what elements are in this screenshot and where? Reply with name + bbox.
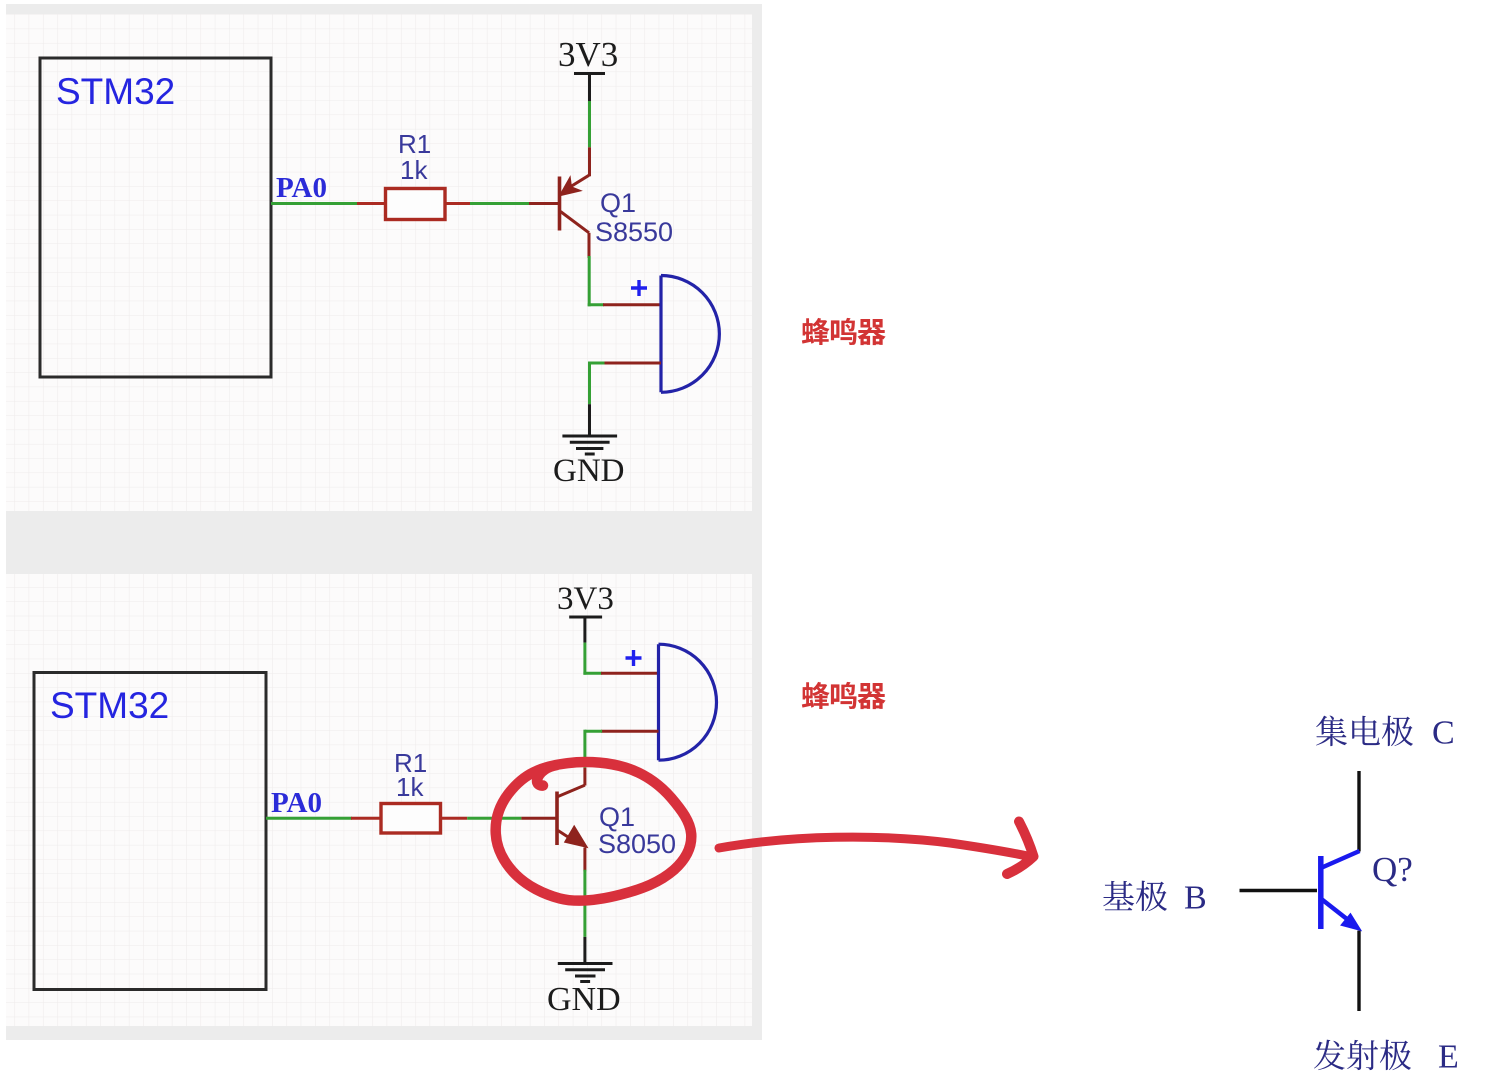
svg-text:E: E xyxy=(1438,1039,1459,1076)
wire green (2) xyxy=(467,817,521,820)
wire buzzer bottom pin red (2) xyxy=(601,730,659,733)
IC U? STM32 box xyxy=(40,58,271,377)
svg-text:STM32: STM32 xyxy=(50,685,169,726)
wire resistor right pin (2) xyxy=(441,817,468,820)
wire resistor left pin (2) xyxy=(351,817,381,820)
wire green from 3V3 xyxy=(588,101,591,147)
wire green to transistor xyxy=(470,202,529,205)
base bar xyxy=(555,792,559,846)
svg-text:3V3: 3V3 xyxy=(558,35,618,74)
transistor demo (blue) xyxy=(1321,851,1360,930)
wire green down to buzzer level xyxy=(588,256,591,306)
wire resistor left pin xyxy=(357,202,385,205)
collector diagonal xyxy=(561,212,590,233)
wire base pin (2) xyxy=(521,817,556,820)
svg-text:1k: 1k xyxy=(400,155,428,185)
ground symbol (2) xyxy=(558,964,613,982)
power 3V3 bar symbol xyxy=(574,72,605,75)
buzzer LS1 bottom xyxy=(659,644,717,760)
transistor Q1 S8050 (NPN) xyxy=(557,785,586,847)
wire buzzer + pin red xyxy=(603,303,661,306)
wire collector down red xyxy=(588,233,591,258)
wire black to gnd (2) xyxy=(583,937,586,964)
svg-text:GND: GND xyxy=(553,453,625,489)
ground symbol xyxy=(562,436,617,454)
base bar blue xyxy=(1318,856,1324,929)
wire resistor right pin xyxy=(445,202,470,205)
label + plus (2) xyxy=(626,650,642,666)
panel gray frame xyxy=(6,4,762,1040)
transistor Q1 S8550 (PNP) xyxy=(560,175,590,233)
svg-text:1k: 1k xyxy=(396,772,424,802)
annotation hand-drawn circle xyxy=(496,762,692,901)
wire green down xyxy=(588,362,591,405)
wire green from 3V3 (2) xyxy=(583,643,586,675)
wire PA0 green segment xyxy=(271,202,359,205)
wire green down to gnd (2) xyxy=(583,870,586,937)
svg-text:S8050: S8050 xyxy=(598,829,676,859)
emitter arrow blue xyxy=(1342,914,1360,930)
resistor R1 body xyxy=(386,189,446,220)
collector lead xyxy=(1357,771,1360,852)
IC U? STM32 box (2) xyxy=(34,673,266,990)
wire black to gnd xyxy=(588,404,591,436)
annotation arrow head xyxy=(1007,822,1034,875)
label 基极 B xyxy=(1103,881,1134,910)
svg-text:GND: GND xyxy=(547,981,621,1018)
collector diagonal blue xyxy=(1322,851,1360,868)
label 发射极 E xyxy=(1314,1040,1345,1071)
wire green corner to buzzer xyxy=(588,303,604,306)
label + plus xyxy=(631,280,647,296)
svg-text:Q?: Q? xyxy=(1372,850,1413,889)
emitter diagonal xyxy=(566,175,589,189)
wire emitter red down (2) xyxy=(583,848,586,872)
svg-text:PA0: PA0 xyxy=(271,787,322,819)
panel 1 grid background xyxy=(6,14,752,511)
emitter arrow (points outward) xyxy=(566,827,587,847)
wire collector red vertical (2) xyxy=(583,768,586,786)
svg-text:B: B xyxy=(1184,880,1207,917)
wire buzzer + pin red (2) xyxy=(601,672,659,675)
wire green corner from buzzer (2) xyxy=(585,730,602,733)
annotation 蜂鸣器 (bottom) xyxy=(802,682,830,709)
resistor R1 body (2) xyxy=(381,804,441,834)
wire PA0 green (2) xyxy=(266,817,352,820)
emitter arrow (points into base bar) xyxy=(561,179,580,195)
label 集电极 C xyxy=(1316,716,1347,747)
svg-text:C: C xyxy=(1432,715,1455,752)
svg-text:Q1: Q1 xyxy=(600,188,636,218)
buzzer LS1 top xyxy=(661,276,719,393)
emitter diagonal blue xyxy=(1322,900,1352,924)
svg-text:PA0: PA0 xyxy=(276,172,327,204)
wire emitter red vertical xyxy=(588,147,591,176)
svg-text:STM32: STM32 xyxy=(56,71,175,112)
annotation arrow curve xyxy=(719,837,1030,856)
base bar xyxy=(558,177,562,231)
wire base pin xyxy=(529,202,558,205)
wire green corner (2) xyxy=(583,672,602,675)
panel 2 grid background xyxy=(6,574,752,1026)
emitter lead xyxy=(1357,931,1360,1011)
power 3V3 bar symbol (2) xyxy=(569,616,602,619)
emitter diagonal xyxy=(558,831,578,844)
wire green corner from buzzer xyxy=(588,362,605,365)
base lead xyxy=(1240,889,1318,892)
wire buzzer bottom pin red xyxy=(603,362,661,365)
wire 3V3 stem black (2) xyxy=(583,617,586,643)
annotation 蜂鸣器 (top) xyxy=(802,318,830,345)
wire 3V3 stem black xyxy=(588,74,591,102)
svg-text:3V3: 3V3 xyxy=(557,581,614,617)
wire green down (2) xyxy=(583,730,586,768)
collector diagonal xyxy=(558,785,585,796)
svg-text:Q1: Q1 xyxy=(599,802,635,832)
svg-text:S8550: S8550 xyxy=(595,217,673,247)
